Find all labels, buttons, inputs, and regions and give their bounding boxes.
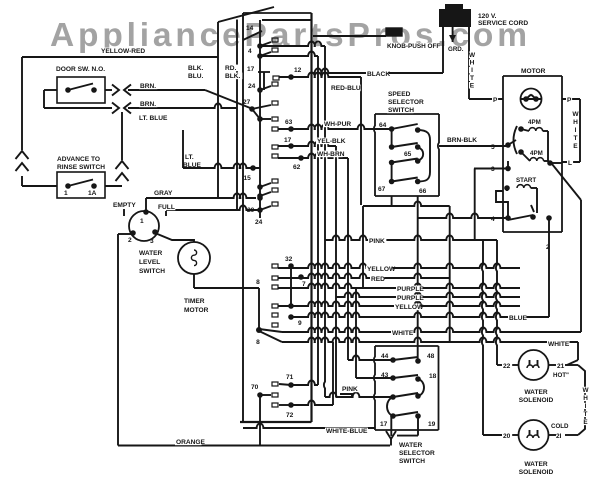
svg-text:71: 71 xyxy=(286,374,294,381)
svg-text:17: 17 xyxy=(284,137,292,144)
svg-text:KNOB-PUSH OFF: KNOB-PUSH OFF xyxy=(387,43,440,50)
svg-text:4PM: 4PM xyxy=(528,119,541,126)
svg-text:4PM: 4PM xyxy=(530,150,543,157)
svg-text:YELLOW-RED: YELLOW-RED xyxy=(101,48,145,55)
svg-text:START: START xyxy=(516,177,536,184)
svg-text:WATER: WATER xyxy=(524,461,548,468)
svg-text:SWITCH: SWITCH xyxy=(388,107,414,114)
svg-text:FULL: FULL xyxy=(158,204,175,211)
svg-text:18: 18 xyxy=(429,373,437,380)
svg-text:LT. BLUE: LT. BLUE xyxy=(139,115,168,122)
svg-text:WHITE: WHITE xyxy=(548,341,570,348)
svg-text:32: 32 xyxy=(285,256,293,263)
svg-text:WH-BRN: WH-BRN xyxy=(317,151,345,158)
svg-text:E: E xyxy=(583,419,588,426)
svg-text:I: I xyxy=(585,403,587,410)
svg-text:RED: RED xyxy=(371,276,385,283)
svg-text:14: 14 xyxy=(246,25,254,32)
svg-text:12: 12 xyxy=(294,67,302,74)
svg-text:I: I xyxy=(575,127,577,134)
svg-text:24: 24 xyxy=(255,219,263,226)
svg-text:2I: 2I xyxy=(556,433,562,440)
svg-text:21: 21 xyxy=(557,363,565,370)
svg-text:BLUE: BLUE xyxy=(183,162,202,169)
svg-text:L: L xyxy=(568,160,572,167)
svg-text:RED-BLU: RED-BLU xyxy=(331,85,361,92)
svg-text:17: 17 xyxy=(247,66,255,73)
svg-text:RINSE SWITCH: RINSE SWITCH xyxy=(57,164,105,171)
svg-text:TIMER: TIMER xyxy=(184,298,205,305)
svg-text:63: 63 xyxy=(285,119,293,126)
svg-text:MOTOR: MOTOR xyxy=(521,68,546,75)
svg-text:PINK: PINK xyxy=(342,386,358,393)
svg-text:BLK.: BLK. xyxy=(188,65,204,72)
svg-text:7: 7 xyxy=(302,281,306,288)
svg-text:P: P xyxy=(493,97,498,104)
svg-text:66: 66 xyxy=(419,188,427,195)
svg-text:WATER: WATER xyxy=(399,442,423,449)
svg-text:1: 1 xyxy=(64,190,68,197)
svg-text:MOTOR: MOTOR xyxy=(184,307,209,314)
svg-text:44: 44 xyxy=(381,353,389,360)
svg-text:3: 3 xyxy=(150,238,154,245)
svg-text:67: 67 xyxy=(378,186,386,193)
svg-text:BRN-BLK: BRN-BLK xyxy=(447,137,477,144)
svg-text:YEL-BLK: YEL-BLK xyxy=(317,138,346,145)
svg-text:22: 22 xyxy=(503,363,511,370)
svg-text:70: 70 xyxy=(251,384,259,391)
svg-text:SELECTOR: SELECTOR xyxy=(388,99,424,106)
svg-text:BLUE: BLUE xyxy=(509,315,528,322)
svg-text:HOT": HOT" xyxy=(553,372,569,379)
svg-text:SPEED: SPEED xyxy=(388,91,411,98)
svg-text:LEVEL: LEVEL xyxy=(139,259,160,266)
svg-text:8: 8 xyxy=(256,339,260,346)
svg-text:27: 27 xyxy=(243,99,251,106)
svg-text:E: E xyxy=(470,82,475,89)
svg-text:8: 8 xyxy=(256,279,260,286)
svg-text:120 V.: 120 V. xyxy=(478,13,497,20)
svg-text:BRN.: BRN. xyxy=(140,83,156,90)
svg-text:PINK: PINK xyxy=(369,238,385,245)
svg-text:72: 72 xyxy=(286,412,294,419)
svg-text:GRAY: GRAY xyxy=(154,190,173,197)
svg-text:T: T xyxy=(470,75,474,82)
svg-text:SELECTOR: SELECTOR xyxy=(399,450,435,457)
svg-text:DOOR SW. N.O.: DOOR SW. N.O. xyxy=(56,66,105,73)
svg-text:PURPLE: PURPLE xyxy=(397,286,424,293)
svg-text:65: 65 xyxy=(404,151,412,158)
svg-text:15: 15 xyxy=(244,175,252,182)
svg-text:H: H xyxy=(573,119,578,126)
svg-text:WHITE-BLUE: WHITE-BLUE xyxy=(326,428,368,435)
svg-text:SOLENOID: SOLENOID xyxy=(519,397,554,404)
svg-text:1: 1 xyxy=(140,218,144,225)
svg-text:H: H xyxy=(583,395,588,402)
svg-text:SWITCH: SWITCH xyxy=(139,268,165,275)
svg-text:20: 20 xyxy=(247,207,255,214)
svg-text:EMPTY: EMPTY xyxy=(113,202,136,209)
svg-text:WATER: WATER xyxy=(524,389,548,396)
svg-text:COLD: COLD xyxy=(551,423,569,430)
svg-text:T: T xyxy=(584,411,588,418)
svg-text:SERVICE CORD: SERVICE CORD xyxy=(478,20,528,27)
svg-text:WH-PUR: WH-PUR xyxy=(324,121,351,128)
svg-text:BLACK: BLACK xyxy=(367,71,390,78)
svg-text:YELLOW: YELLOW xyxy=(395,304,424,311)
svg-text:YELLOW: YELLOW xyxy=(367,266,396,273)
svg-text:5: 5 xyxy=(491,144,495,151)
svg-text:9: 9 xyxy=(298,320,302,327)
svg-text:1A: 1A xyxy=(88,190,97,197)
svg-text:24: 24 xyxy=(248,83,256,90)
svg-text:BLK.: BLK. xyxy=(225,73,241,80)
svg-text:GRD.: GRD. xyxy=(448,46,464,53)
svg-text:E: E xyxy=(573,143,578,150)
svg-text:48: 48 xyxy=(427,353,435,360)
svg-text:PURPLE: PURPLE xyxy=(397,295,424,302)
svg-text:W: W xyxy=(582,387,589,394)
svg-text:64: 64 xyxy=(379,122,387,129)
svg-text:43: 43 xyxy=(381,372,389,379)
svg-text:2: 2 xyxy=(128,237,132,244)
svg-text:W: W xyxy=(572,111,579,118)
svg-text:H: H xyxy=(470,60,475,67)
svg-text:62: 62 xyxy=(293,164,301,171)
svg-text:17: 17 xyxy=(380,421,388,428)
svg-text:2: 2 xyxy=(546,244,550,251)
svg-text:3: 3 xyxy=(491,166,495,173)
svg-text:SWITCH: SWITCH xyxy=(399,458,425,465)
svg-text:W: W xyxy=(469,52,476,59)
svg-text:RD.: RD. xyxy=(225,65,237,72)
svg-text:WATER: WATER xyxy=(139,250,163,257)
svg-text:ADVANCE TO: ADVANCE TO xyxy=(57,156,100,163)
svg-text:T: T xyxy=(573,135,577,142)
svg-text:P: P xyxy=(567,97,572,104)
svg-text:4: 4 xyxy=(491,216,495,223)
svg-text:SOLENOID: SOLENOID xyxy=(519,469,554,476)
svg-text:LT.: LT. xyxy=(185,154,194,161)
svg-text:ORANGE: ORANGE xyxy=(176,439,206,446)
svg-text:4: 4 xyxy=(248,48,252,55)
svg-text:I: I xyxy=(471,67,473,74)
svg-text:20: 20 xyxy=(503,433,511,440)
svg-text:WHITE: WHITE xyxy=(392,330,414,337)
svg-text:BRN.: BRN. xyxy=(140,101,156,108)
svg-text:BLU.: BLU. xyxy=(188,73,204,80)
svg-text:19: 19 xyxy=(428,421,436,428)
